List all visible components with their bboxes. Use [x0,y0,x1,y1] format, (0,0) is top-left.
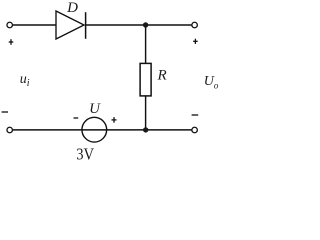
svg-text:Uo: Uo [204,74,219,90]
resistor R body [140,63,151,96]
plus sign input [9,41,14,43]
minus sign at source [74,117,79,119]
minus sign input [2,111,8,113]
node junction bottom [143,127,148,132]
wire bottom rail [13,129,192,131]
node junction top [143,22,148,27]
wire top rail right [86,24,192,26]
diode D triangle [56,11,84,39]
svg-text:D: D [66,0,78,16]
svg-text:R: R [157,68,167,84]
terminal output - [192,127,198,133]
wire top rail left [13,24,56,26]
svg-text:ui: ui [20,72,30,89]
diode D cathode bar [85,12,87,39]
minus sign output [192,114,199,116]
terminal output + [192,22,198,28]
voltage source U circle [82,117,107,142]
wire vertical branch lower [145,96,147,130]
terminal input - [7,127,13,133]
svg-text:3V: 3V [76,145,94,162]
plus sign at source [112,119,117,121]
plus sign output [193,40,198,42]
terminal input + [7,22,13,28]
wire vertical branch upper [145,25,147,64]
svg-text:U: U [89,101,101,117]
